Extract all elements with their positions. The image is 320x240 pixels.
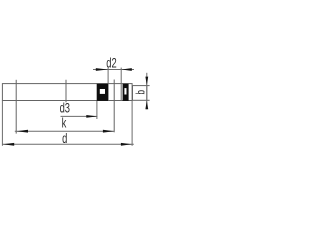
svg-text:d3: d3 (60, 102, 70, 116)
svg-text:b: b (135, 90, 148, 95)
svg-text:k: k (62, 117, 67, 131)
svg-text:d: d (62, 133, 67, 147)
svg-text:d2: d2 (106, 57, 116, 71)
